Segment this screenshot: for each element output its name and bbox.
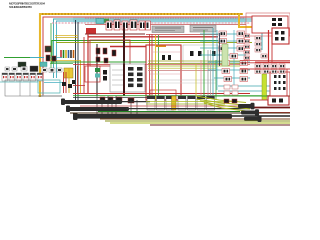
svg-text:SCHEMA IMPIANTO: SCHEMA IMPIANTO — [9, 5, 33, 9]
